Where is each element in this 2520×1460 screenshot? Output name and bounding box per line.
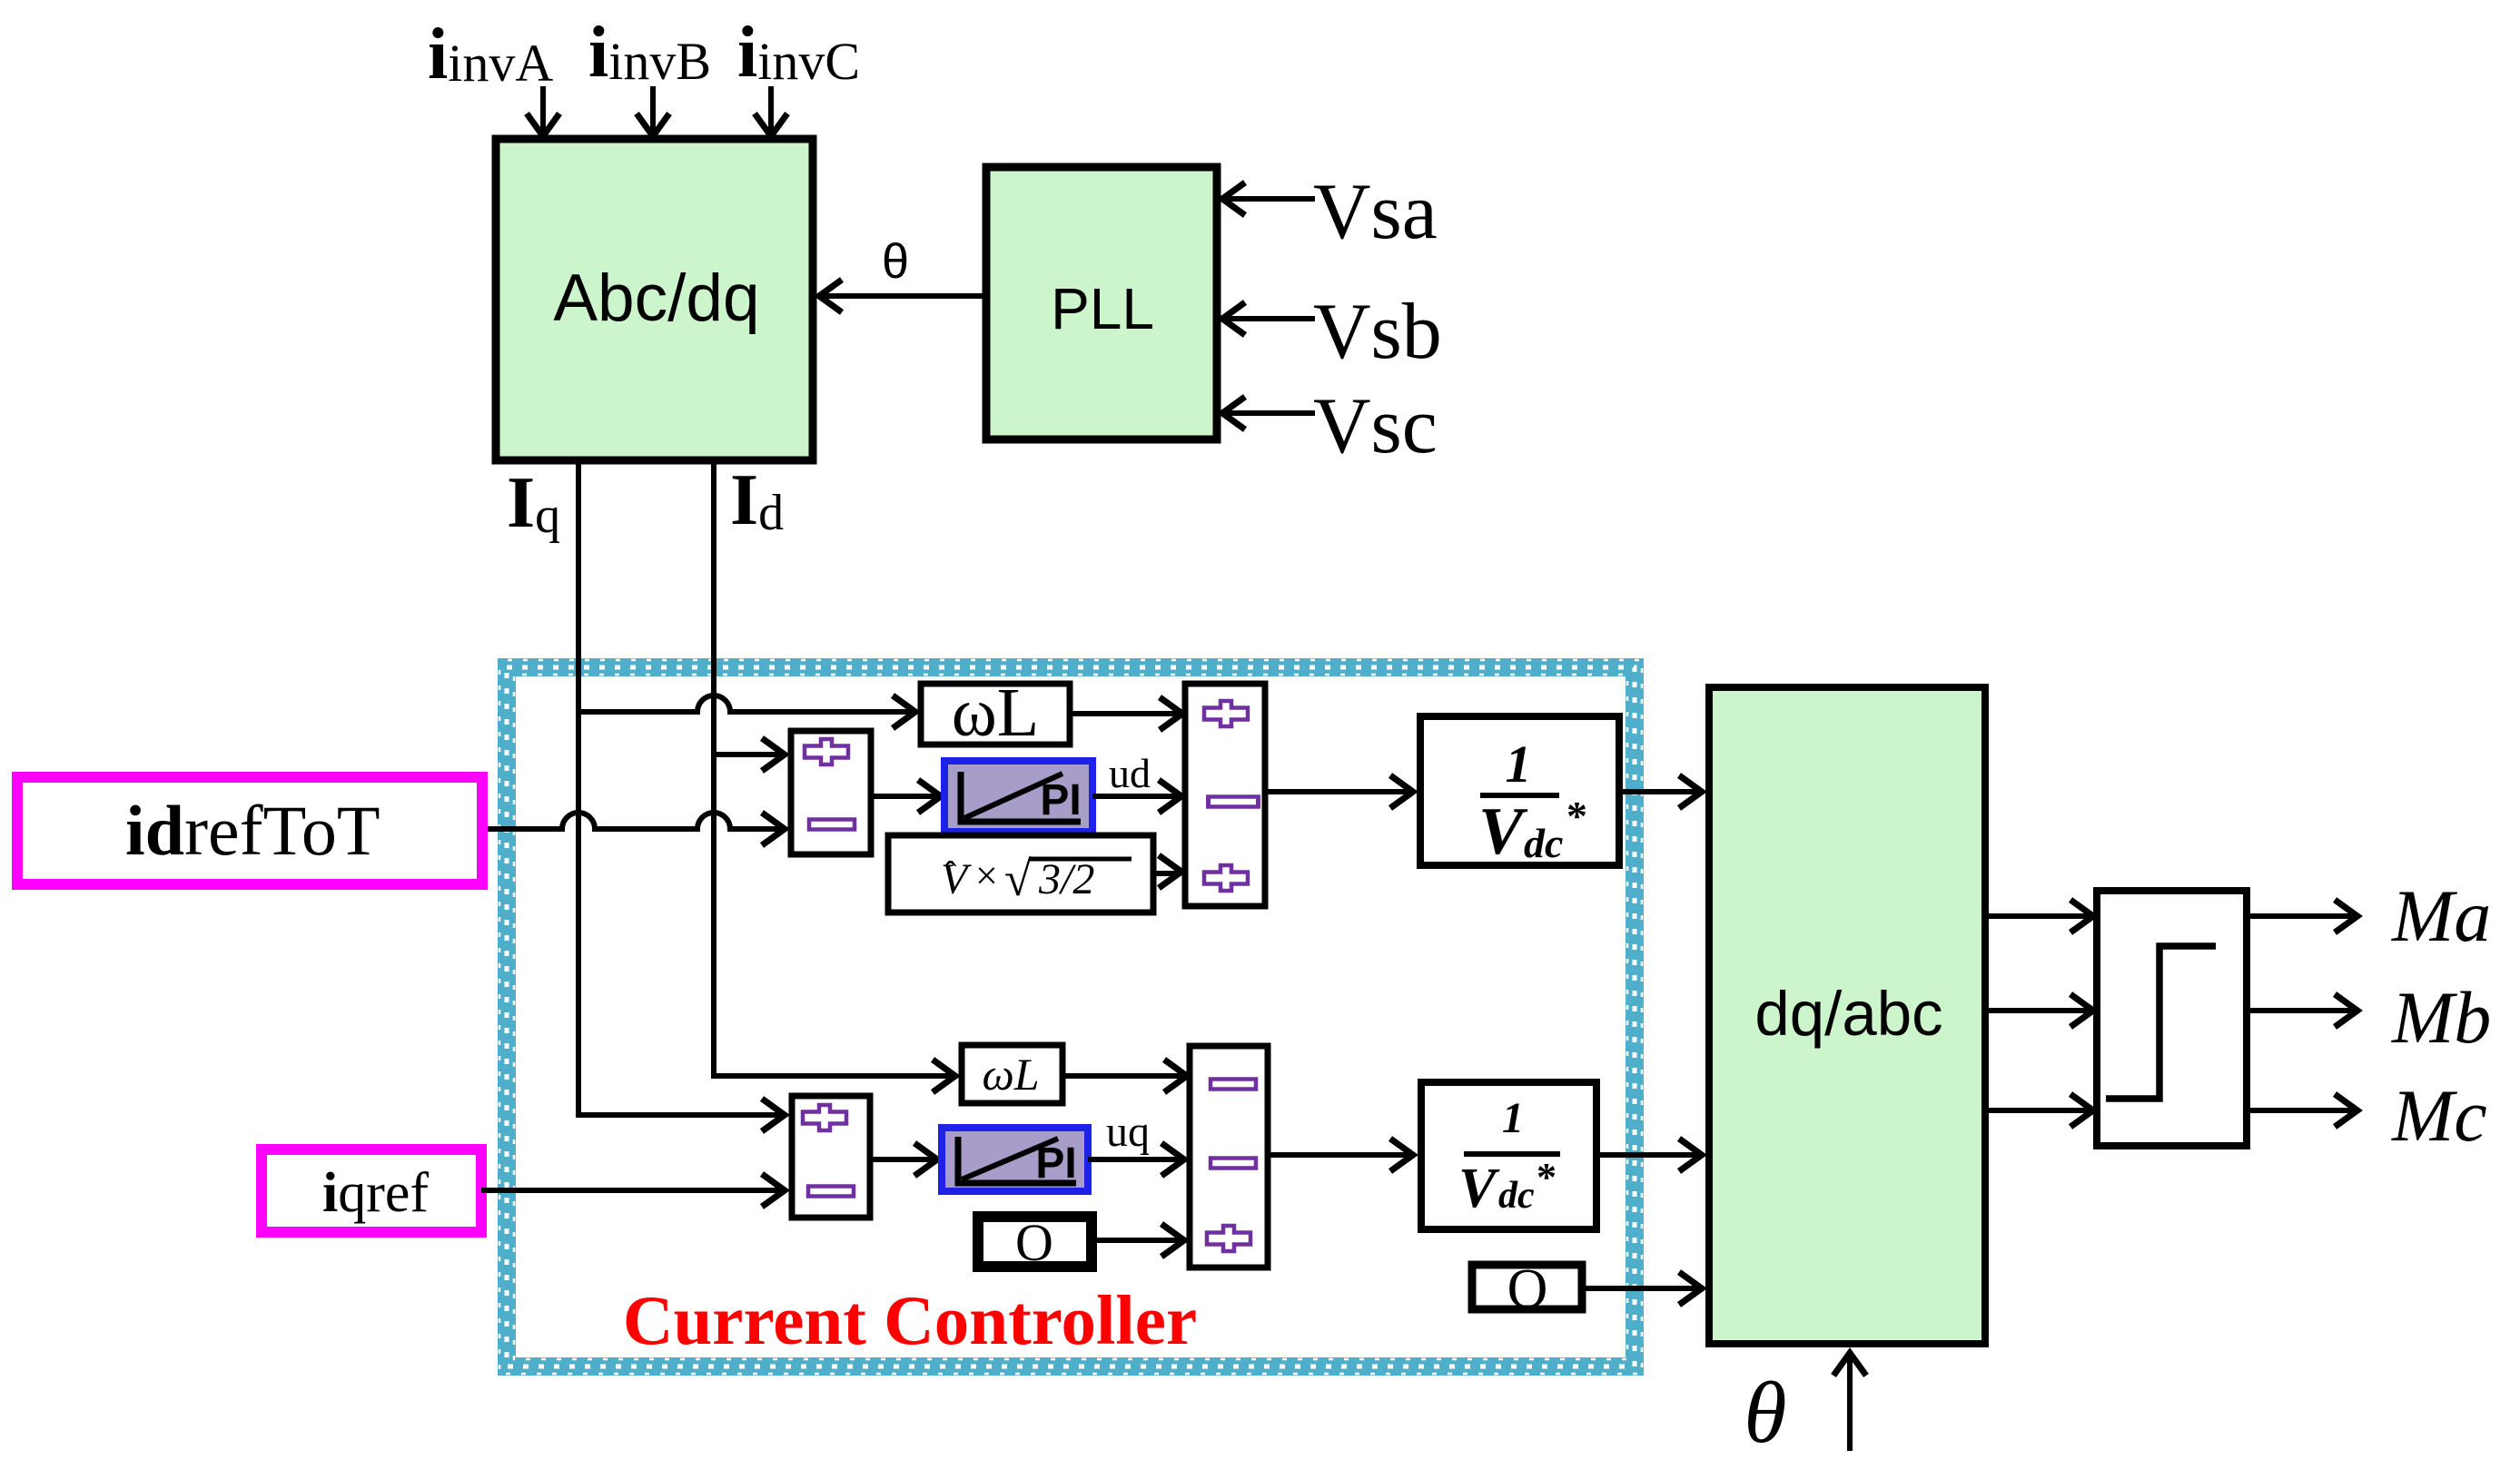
wire upper summer to PI <box>870 794 938 799</box>
svg-text:Mc: Mc <box>2391 1074 2487 1157</box>
block PI upper <box>944 761 1092 832</box>
svg-text:1: 1 <box>1506 735 1532 794</box>
wire zero to adder plus <box>1092 1238 1181 1243</box>
wire omegaL lower to adder minus <box>1062 1073 1184 1079</box>
wire dq/abc to relay b <box>1985 1008 2090 1013</box>
wire Vsb input <box>1226 316 1315 321</box>
wire iinvB input <box>650 86 656 133</box>
wire relay output Mb <box>2247 1008 2355 1013</box>
block PLL <box>986 167 1217 439</box>
wire PI lower to adder minus <box>1088 1157 1181 1162</box>
summer upper (d-axis) <box>791 731 871 854</box>
svg-text:Current Controller: Current Controller <box>623 1281 1197 1359</box>
svg-text:Vsb: Vsb <box>1313 288 1442 376</box>
wire theta to dq/abc bottom <box>1847 1356 1853 1451</box>
wire Vsc input <box>1226 410 1315 416</box>
svg-text:√: √ <box>1004 852 1032 906</box>
wire Id vertical <box>714 460 953 1076</box>
border current controller dashed box <box>499 660 1642 1374</box>
svg-text:dc: dc <box>1524 820 1563 866</box>
svg-text:ud: ud <box>1109 750 1151 796</box>
wire Id branch to upper summer plus <box>714 752 782 757</box>
wire omegaL upper to adder plus <box>1070 711 1180 716</box>
svg-text:O: O <box>1015 1213 1053 1272</box>
svg-text:*: * <box>1537 1155 1556 1199</box>
wire Vsa input <box>1226 196 1315 202</box>
wire dq/abc to relay c <box>1985 1108 2090 1113</box>
wire 1/Vdc upper to dq/abc <box>1619 789 1699 794</box>
wire 1/Vdc lower to dq/abc <box>1596 1152 1699 1158</box>
svg-text:V: V <box>1458 1158 1500 1219</box>
wire theta PLL to Abc/dq <box>823 293 986 299</box>
svg-text:Abc/dq: Abc/dq <box>553 261 759 335</box>
block zero upper <box>978 1213 1092 1272</box>
svg-text:V: V <box>1478 794 1528 869</box>
wire Iq vertical <box>578 460 782 1115</box>
wire PI upper to adder minus <box>1092 794 1179 799</box>
block Abc/dq <box>496 139 813 460</box>
svg-text:Ma: Ma <box>2391 874 2491 957</box>
svg-text:PI: PI <box>1035 1139 1076 1188</box>
svg-text:Mb: Mb <box>2391 976 2491 1059</box>
summer lower (q-axis) <box>792 1096 870 1218</box>
svg-text:Vsa: Vsa <box>1313 168 1438 256</box>
svg-text:O: O <box>1507 1258 1548 1320</box>
svg-text:ωL: ωL <box>982 1049 1039 1100</box>
block relay <box>2097 891 2247 1146</box>
svg-text:PLL: PLL <box>1051 276 1154 341</box>
block zero lower <box>1472 1258 1582 1320</box>
adder lower (3 input) <box>1190 1046 1268 1268</box>
svg-text:θ: θ <box>882 234 909 289</box>
wire Vhat block to adder plus <box>1153 871 1179 876</box>
wire relay output Ma <box>2247 913 2355 919</box>
svg-text:dq/abc: dq/abc <box>1754 979 1942 1049</box>
adder upper (3 input) <box>1185 684 1265 906</box>
wire dq/abc to relay a <box>1985 913 2090 919</box>
box iqref <box>262 1149 481 1232</box>
wire zero lower to dq/abc <box>1582 1286 1699 1291</box>
svg-text:*: * <box>1566 793 1587 839</box>
wire Iq to upper omegaL with hop over Id <box>578 695 913 712</box>
svg-text:uq: uq <box>1106 1108 1150 1156</box>
block omegaL upper <box>921 675 1070 751</box>
wire idrefToT to upper summer minus with hops <box>482 813 782 829</box>
block Vhat sqrt(3/2) <box>888 835 1153 912</box>
svg-text:dc: dc <box>1498 1175 1535 1217</box>
box idrefToT <box>17 777 482 884</box>
svg-text:1: 1 <box>1502 1094 1524 1142</box>
block PI lower <box>942 1128 1088 1191</box>
svg-text:×: × <box>975 853 998 898</box>
svg-text:idrefToT: idrefToT <box>125 791 380 870</box>
svg-text:iqref: iqref <box>322 1162 429 1224</box>
block omegaL lower <box>962 1045 1062 1103</box>
svg-text:Vsc: Vsc <box>1313 382 1438 470</box>
svg-text:ˆ: ˆ <box>944 853 957 894</box>
wire iinvA input <box>540 86 546 133</box>
svg-text:ωL: ωL <box>952 675 1039 751</box>
wire adder upper to 1/Vdc <box>1265 789 1410 794</box>
wire lower summer to PI <box>870 1157 934 1162</box>
block 1/Vdc lower <box>1421 1082 1596 1229</box>
wire iinvC input <box>768 86 774 133</box>
wire relay output Mc <box>2247 1108 2355 1113</box>
block dq/abc <box>1709 687 1985 1344</box>
svg-text:θ: θ <box>1744 1364 1786 1460</box>
svg-text:PI: PI <box>1040 776 1081 824</box>
svg-text:3/2: 3/2 <box>1038 855 1094 903</box>
block 1/Vdc upper <box>1420 716 1619 869</box>
wire adder lower to 1/Vdc <box>1268 1152 1410 1158</box>
wire iqref to lower summer minus <box>481 1188 782 1193</box>
